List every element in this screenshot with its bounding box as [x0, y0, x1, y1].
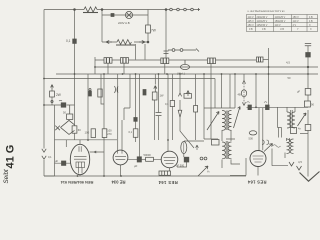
svg-text:270: 270	[107, 132, 112, 136]
svg-text:μF: μF	[55, 159, 58, 163]
svg-text:0,1: 0,1	[165, 102, 169, 106]
svg-text:4,5: 4,5	[298, 160, 302, 164]
svg-text:2W: 2W	[56, 93, 61, 97]
svg-text:125 V: 125 V	[248, 20, 255, 23]
svg-text:50000: 50000	[144, 153, 152, 157]
svg-text:220/240 V: 220/240 V	[257, 16, 268, 19]
svg-text:150 V: 150 V	[248, 24, 255, 27]
svg-text:1W: 1W	[160, 94, 164, 98]
svg-text:0,1: 0,1	[129, 130, 133, 134]
svg-text:100: 100	[107, 129, 112, 133]
svg-text:RE 034: RE 034	[111, 180, 126, 185]
svg-text:110 V: 110 V	[293, 20, 299, 23]
svg-text:μ₄: μ₄	[207, 170, 210, 173]
svg-text:4B: 4B	[238, 93, 241, 97]
svg-text:RES 164: RES 164	[158, 180, 178, 185]
svg-text:RES 164: RES 164	[247, 180, 266, 185]
svg-text:110/125 V: 110/125 V	[257, 20, 268, 23]
svg-text:4 B: 4 B	[309, 20, 313, 23]
svg-text:U B: U B	[280, 28, 284, 31]
svg-text:μF: μF	[134, 164, 138, 168]
svg-text:0 B: 0 B	[262, 28, 266, 31]
svg-text:100: 100	[85, 131, 90, 135]
svg-text:4 B: 4 B	[309, 16, 313, 19]
svg-text:7W: 7W	[151, 29, 156, 33]
svg-text:0,1: 0,1	[66, 39, 71, 43]
svg-text:REN 904/REN 914: REN 904/REN 914	[60, 180, 93, 185]
svg-text:0 B: 0 B	[249, 28, 253, 31]
svg-text:μF: μF	[297, 90, 300, 94]
svg-text:0,1: 0,1	[48, 155, 52, 159]
svg-text:110 V: 110 V	[248, 16, 254, 19]
svg-text:μF 500: μF 500	[176, 164, 185, 168]
svg-text:220V A.B: 220V A.B	[118, 21, 130, 25]
svg-text:125/150 V: 125/150 V	[257, 24, 268, 27]
svg-text:(WeL): (WeL)	[177, 72, 185, 76]
svg-text:150/220 V: 150/220 V	[275, 20, 286, 23]
svg-text:4 V: 4 V	[293, 24, 297, 27]
svg-text:110 V: 110 V	[275, 24, 281, 27]
svg-text:110/125 V: 110/125 V	[275, 16, 286, 19]
svg-text:41 G: 41 G	[5, 145, 17, 169]
svg-text:u. den Wechselstromnetz 110 V: u. den Wechselstromnetz 110 V an	[248, 10, 286, 13]
svg-text:150 V: 150 V	[293, 16, 300, 19]
svg-text:Seibt: Seibt	[3, 169, 10, 183]
svg-text:4,5: 4,5	[286, 61, 290, 65]
svg-text:500: 500	[249, 137, 254, 141]
